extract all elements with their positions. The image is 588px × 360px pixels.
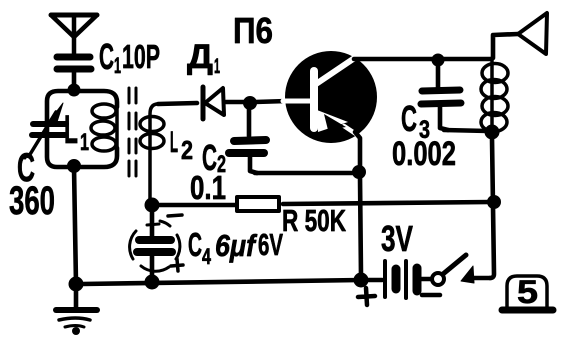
antenna W1	[51, 15, 97, 55]
variable capacitor C 360	[25, 103, 66, 158]
label 0.1	[190, 169, 226, 206]
node L2 bottom / C4 top	[146, 199, 159, 212]
label C3	[401, 98, 430, 144]
coil L1	[91, 104, 117, 151]
label 5	[517, 274, 538, 310]
label P6	[233, 10, 273, 51]
svg-text:6μf: 6μf	[215, 228, 257, 263]
node ground branch	[70, 278, 83, 291]
wire emitter line down	[360, 177, 361, 276]
capacitor C3	[421, 63, 461, 130]
switch S1	[432, 255, 490, 285]
svg-text:L: L	[64, 108, 78, 152]
svg-text:L: L	[170, 126, 178, 159]
svg-text:1: 1	[114, 53, 121, 78]
coil L2	[140, 104, 164, 203]
svg-text:C: C	[188, 226, 202, 263]
label - battery	[422, 293, 440, 298]
svg-text:П6: П6	[233, 10, 273, 51]
wire L2 top to diode	[158, 103, 197, 104]
transistor V1	[283, 51, 377, 143]
figure number badge 5	[502, 276, 553, 310]
node bottom emitter	[355, 274, 368, 287]
svg-text:2: 2	[181, 135, 193, 165]
label D1	[187, 38, 220, 78]
right vertical wire	[490, 138, 494, 278]
label 0.002	[392, 135, 456, 173]
svg-text:C: C	[401, 98, 417, 139]
node C4 bottom	[146, 276, 159, 289]
svg-text:6V: 6V	[258, 227, 283, 262]
wire junction down to C2	[247, 108, 252, 136]
label C1 10P	[99, 36, 160, 78]
bottom wire	[82, 280, 361, 284]
headphone coil	[481, 58, 508, 132]
capacitor C4 electrolytic	[130, 211, 183, 277]
node tank bottom	[68, 160, 80, 172]
earphone B1	[493, 13, 547, 58]
svg-text:0.002: 0.002	[392, 135, 456, 173]
node tank top	[69, 85, 80, 96]
ground	[56, 290, 97, 335]
wire junction to base	[255, 101, 287, 102]
diode D1	[203, 87, 245, 119]
resistor R	[156, 197, 279, 211]
label 3V	[381, 218, 413, 259]
label 360	[9, 179, 55, 223]
svg-text:1: 1	[80, 129, 89, 156]
tank loop frame	[47, 91, 74, 167]
label C	[17, 146, 35, 190]
node emitter / C2 junction	[353, 166, 365, 178]
wire C3 bottom to coil bottom	[444, 130, 488, 131]
svg-text:3V: 3V	[381, 218, 413, 259]
svg-text:C: C	[99, 36, 114, 77]
svg-text:1: 1	[214, 55, 220, 78]
svg-text:10P: 10P	[122, 38, 160, 75]
emitter wire	[355, 132, 360, 168]
svg-text:4: 4	[202, 244, 212, 269]
label R 50K	[282, 203, 346, 238]
label C2	[202, 137, 226, 178]
capacitor C2	[229, 140, 266, 173]
svg-text:5: 5	[517, 274, 538, 310]
svg-text:0.1: 0.1	[190, 169, 226, 206]
wire to battery	[367, 278, 382, 283]
transformer core	[129, 88, 136, 176]
label L2	[170, 126, 193, 165]
left vertical wire tank to ground	[74, 167, 76, 284]
label C4 6uf 6V	[188, 226, 283, 269]
battery GB1	[385, 261, 431, 298]
node base junction	[244, 97, 256, 109]
label + battery	[358, 288, 375, 305]
wire C2 bottom to emitter line	[255, 171, 354, 176]
capacitor C1	[57, 57, 91, 89]
node C3 top	[433, 55, 444, 66]
collector wire	[354, 57, 491, 62]
svg-text:R 50K: R 50K	[282, 203, 346, 238]
svg-text:Д: Д	[187, 38, 213, 76]
svg-text:360: 360	[9, 179, 55, 223]
node coil bottom	[486, 126, 499, 139]
label L1	[64, 108, 89, 156]
wire R to right node	[283, 202, 491, 204]
node switch top	[488, 196, 500, 208]
